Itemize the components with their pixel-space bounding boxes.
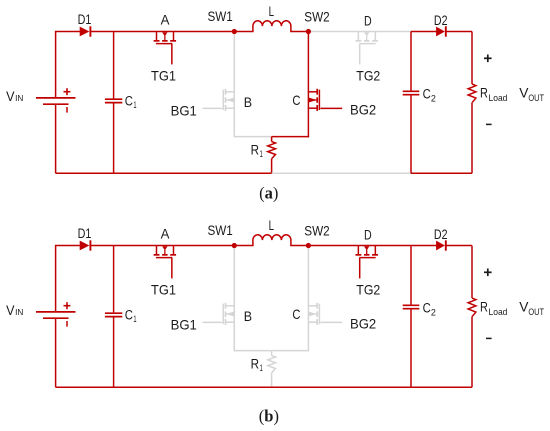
wire: BG1 source down (b) <box>233 322 235 351</box>
svg-text:C: C <box>125 307 133 322</box>
svg-text:D2: D2 <box>434 227 448 242</box>
svg-text:Load: Load <box>489 307 508 318</box>
battery V_IN plates (a) <box>36 97 76 99</box>
transistor TG2 (a) <box>355 40 361 42</box>
wire: battery top lead / left rail (b) <box>56 246 81 312</box>
svg-text:R: R <box>480 85 488 101</box>
wire: BG2 source down (b) <box>307 322 309 351</box>
wire: BG1 gate lead (b) <box>203 321 223 323</box>
node SW1 (a) <box>232 29 237 34</box>
svg-text:L: L <box>269 217 275 233</box>
svg-text:BG1: BG1 <box>171 317 197 333</box>
svg-text:2: 2 <box>431 307 436 318</box>
svg-text:SW1: SW1 <box>208 8 233 24</box>
svg-text:C: C <box>423 87 431 102</box>
wire: D2 to output right rail (b) <box>446 245 472 247</box>
wire: BG2 source down (a) <box>307 108 309 137</box>
wire: output loop top-left to D2 (b) <box>411 245 437 247</box>
capacitor C2 branch (b) <box>410 246 412 305</box>
svg-text:1: 1 <box>133 314 136 325</box>
node SW1 (b) <box>232 243 237 248</box>
resistor R_Load (a) <box>471 32 473 85</box>
wire: BG1 source down (a) <box>233 108 235 137</box>
transistor TG1 (b) <box>154 254 160 256</box>
node SW2 (a) <box>306 29 311 34</box>
svg-text:C: C <box>292 306 300 322</box>
wire: output loop bottom (a) <box>411 172 472 174</box>
svg-text:D1: D1 <box>78 12 92 27</box>
svg-text:BG1: BG1 <box>171 103 197 119</box>
svg-text:1: 1 <box>133 100 136 111</box>
svg-text:R: R <box>251 356 260 371</box>
wire: rail SW2 to output loop through D (a) <box>308 31 411 33</box>
diode D1 (b) <box>80 241 90 251</box>
svg-text:D: D <box>364 13 372 29</box>
capacitor C2 branch (a) <box>410 32 412 91</box>
svg-text:L: L <box>269 3 275 19</box>
wire: node C to R1 top (a) <box>272 136 310 138</box>
battery minus sign (b) <box>66 321 68 327</box>
svg-text:V: V <box>6 88 15 104</box>
resistor R_Load (b) <box>471 246 473 299</box>
svg-text:BG2: BG2 <box>350 102 376 118</box>
inductor L (b) <box>253 235 291 246</box>
wire: SW1 to BG1 drain (b) <box>233 246 235 306</box>
diode D1 (a) <box>80 27 90 37</box>
wire: top rail D1 to inductor (b) <box>90 245 253 247</box>
svg-text:SW2: SW2 <box>304 8 330 24</box>
battery plus sign (a) <box>64 91 71 93</box>
svg-text:A: A <box>161 226 170 242</box>
node SW2 (b) <box>306 243 311 248</box>
svg-text:2: 2 <box>431 93 436 104</box>
wire: output loop bottom (b) <box>411 386 472 388</box>
capacitor C1 (b) <box>113 246 115 313</box>
transistor BG1 (a) <box>225 89 227 95</box>
svg-text:V: V <box>6 302 15 318</box>
svg-text:TG1: TG1 <box>151 68 176 84</box>
wire: top rail D1 to inductor (a) <box>90 31 253 33</box>
svg-text:D: D <box>364 227 372 243</box>
wire: node C to R1 top (b) <box>272 350 310 352</box>
wire: SW2 to BG2 drain (a) <box>307 32 309 92</box>
battery V_IN plates (b) <box>36 311 76 313</box>
wire: node B to R1 top (b) <box>234 350 271 352</box>
wire: BG2 gate lead (a) <box>321 107 343 109</box>
wire: bottom rail middle (a) <box>272 172 411 174</box>
svg-text:C: C <box>423 301 431 316</box>
wire: output loop top-left to D2 (a) <box>411 31 437 33</box>
wire: D2 to output right rail (a) <box>446 31 472 33</box>
transistor BG1 (b) <box>225 303 227 309</box>
wire: SW1 to BG1 drain (a) <box>233 32 235 92</box>
wire: BG2 gate lead (b) <box>321 321 343 323</box>
svg-text:R: R <box>251 142 260 157</box>
battery plus sign (b) <box>64 305 71 307</box>
svg-text:Load: Load <box>489 93 508 104</box>
svg-text:(a): (a) <box>259 184 278 203</box>
svg-text:IN: IN <box>15 307 23 317</box>
label minus output (b) <box>486 337 492 339</box>
svg-text:TG2: TG2 <box>356 281 380 297</box>
transistor TG2 (b) <box>355 254 361 256</box>
svg-text:C: C <box>292 92 300 108</box>
svg-text:B: B <box>244 308 252 324</box>
wire: rail SW2 to output loop through D (b) <box>308 245 411 247</box>
svg-text:D1: D1 <box>78 226 92 241</box>
svg-text:TG2: TG2 <box>356 67 380 83</box>
wire: inductor to SW2 (a) <box>290 31 308 33</box>
label plus output (b) <box>484 271 492 273</box>
wire: bottom rail left (a) <box>56 172 273 174</box>
transistor TG1 (a) <box>154 40 160 42</box>
battery minus sign (a) <box>66 107 68 113</box>
wire: bottom rail middle (b) <box>271 386 412 388</box>
svg-text:BG2: BG2 <box>350 316 376 332</box>
svg-text:A: A <box>161 12 170 28</box>
capacitor C1 (a) <box>113 32 115 99</box>
transistor BG2 (b) <box>316 303 318 309</box>
svg-text:B: B <box>244 94 252 110</box>
wire: SW2 to BG2 drain (b) <box>307 246 309 306</box>
svg-text:SW1: SW1 <box>208 222 233 238</box>
inductor L (a) <box>253 21 291 32</box>
wire: battery bottom lead (b) <box>55 318 57 387</box>
svg-text:OUT: OUT <box>528 307 544 318</box>
label minus output (a) <box>486 123 492 125</box>
wire: inductor to SW2 (b) <box>290 245 308 247</box>
wire: battery bottom lead (a) <box>55 104 57 173</box>
wire: BG1 gate lead (a) <box>203 107 223 109</box>
svg-text:(b): (b) <box>259 406 279 425</box>
svg-text:1: 1 <box>260 363 263 374</box>
wire: battery top lead / left rail (a) <box>56 32 81 98</box>
diode D2 (b) <box>436 241 445 251</box>
wire: node B to R1 top (a) <box>234 136 271 138</box>
svg-text:1: 1 <box>260 149 263 160</box>
wire: bottom rail left (b) <box>56 386 273 388</box>
diode D2 (a) <box>436 27 445 37</box>
svg-text:TG1: TG1 <box>151 282 176 298</box>
label plus output (a) <box>484 57 492 59</box>
transistor BG2 (a) <box>316 89 318 95</box>
svg-text:IN: IN <box>15 93 23 103</box>
svg-text:SW2: SW2 <box>304 222 330 238</box>
svg-text:OUT: OUT <box>528 93 544 104</box>
resistor R1 (b) <box>271 351 273 356</box>
svg-text:R: R <box>480 299 488 315</box>
resistor R1 (a) <box>271 137 273 142</box>
svg-text:C: C <box>125 93 133 108</box>
svg-text:D2: D2 <box>434 13 448 28</box>
